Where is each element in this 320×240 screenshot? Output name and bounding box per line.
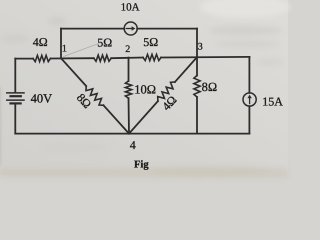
resistor R7 4ohm diagonal (158, 82, 175, 101)
svg-text:8Ω: 8Ω (202, 80, 218, 94)
wire top rail left of 10A source (61, 28, 124, 30)
wire node 2 to 10-ohm (128, 58, 130, 81)
wire top rail to node 3 (196, 29, 198, 57)
wire node 3 to right rail (161, 56, 249, 59)
wire 5-ohm to second 5-ohm through node 2 (111, 57, 143, 60)
wire node 1 to top rail (60, 29, 62, 59)
svg-text:40V: 40V (31, 91, 53, 105)
wire right rail top segment (248, 57, 250, 93)
background bleed-through blotches (200, 0, 290, 18)
resistor R1 4ohm (33, 55, 51, 61)
resistor R5 8ohm vertical (194, 76, 200, 98)
wire top rail right of 10A source (137, 28, 197, 30)
resistor R6 8ohm diagonal (86, 86, 104, 105)
wire 10-ohm to node 4 (128, 98, 131, 133)
current source I1 10A (124, 22, 137, 35)
current source I2 15A (243, 93, 256, 106)
svg-text:5Ω: 5Ω (97, 36, 112, 50)
svg-text:4: 4 (130, 138, 136, 152)
svg-text:10A: 10A (121, 2, 140, 14)
svg-text:10Ω: 10Ω (134, 82, 156, 96)
resistor R4 10ohm (125, 81, 131, 98)
wire right rail bottom segment (248, 106, 250, 133)
wire node 1 to 8-ohm diagonal (61, 58, 86, 86)
wire left rail top to 4-ohm resistor (15, 58, 33, 60)
svg-text:4Ω: 4Ω (159, 93, 179, 114)
wire battery to bottom rail (14, 105, 16, 134)
wire node 3 to 8-ohm vertical (196, 57, 198, 75)
battery V1 40V plates (7, 93, 24, 104)
wire node 3 to 4-ohm diagonal (175, 57, 197, 82)
resistor R3 5ohm (node2-node3) (143, 54, 161, 60)
svg-text:15A: 15A (262, 94, 283, 108)
wire left rail down to battery (14, 59, 16, 92)
wire bottom rail (15, 133, 249, 135)
svg-text:1: 1 (62, 44, 67, 55)
resistor R2 5ohm (node1-node2) (94, 55, 111, 61)
wire 8-ohm vertical to bottom rail (196, 97, 198, 134)
svg-text:3: 3 (198, 42, 203, 53)
wire 4-ohm to 5-ohm through node 1 (51, 57, 94, 59)
wire 4-ohm diagonal to node 4 (129, 101, 158, 134)
svg-text:4Ω: 4Ω (33, 35, 48, 49)
svg-text:5Ω: 5Ω (143, 35, 158, 49)
svg-text:2: 2 (125, 44, 130, 55)
svg-text:Fig: Fig (134, 159, 149, 170)
stray faint line (64, 43, 101, 57)
wire 8-ohm diagonal to node 4 (104, 105, 130, 133)
